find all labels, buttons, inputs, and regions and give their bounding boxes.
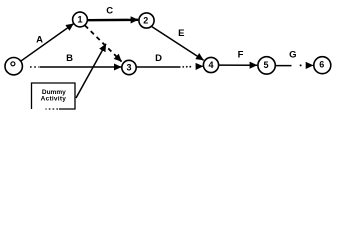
svg-text:E: E <box>178 28 184 39</box>
svg-text:Activity: Activity <box>41 95 67 102</box>
svg-text:B: B <box>66 53 73 64</box>
svg-text:4: 4 <box>208 60 213 70</box>
svg-text:C: C <box>106 5 113 16</box>
svg-text:A: A <box>36 35 43 46</box>
wire: activity arrow F (node 4 to node 5) <box>219 64 257 66</box>
node 6 <box>314 57 331 74</box>
node 5 <box>258 57 275 74</box>
wire: pointer arrow from dummy-activity label box to dashed arrow <box>76 44 106 98</box>
wire: activity arrow E (node 2 to node 4) <box>152 27 204 60</box>
wire: dummy activity dashed arrow (node 1 to node 3) <box>85 25 122 61</box>
node 3 <box>122 60 136 74</box>
svg-text:D: D <box>155 53 162 64</box>
wire: activity arrow D (node 3 to node 4), dotted near end <box>136 66 203 68</box>
svg-text:1: 1 <box>77 14 82 24</box>
svg-text:F: F <box>238 50 244 61</box>
wire: activity arrow C (node 1 to node 2), thick <box>88 19 139 22</box>
dummy activity label box <box>32 83 76 109</box>
node 0 <box>5 57 22 74</box>
svg-text:6: 6 <box>319 60 324 70</box>
wire: activity arrow G (node 5 to node 6), dotted near end <box>275 64 313 66</box>
svg-text:2: 2 <box>143 15 148 25</box>
wire: activity arrow B (node 0 to node 3), dotted at start <box>30 66 121 68</box>
node 1 <box>73 12 88 27</box>
wire: activity arrow A (node 0 to node 1) <box>20 24 74 62</box>
svg-text:G: G <box>289 50 296 61</box>
svg-text:5: 5 <box>263 60 268 70</box>
svg-text:3: 3 <box>126 63 131 73</box>
node 4 <box>203 57 218 72</box>
node 2 <box>139 13 154 28</box>
